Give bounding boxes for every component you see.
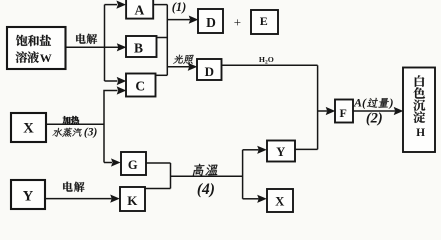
svg-text:Y: Y <box>276 145 285 159</box>
label se <box>413 87 425 98</box>
box X1 <box>11 113 46 142</box>
svg-text:C: C <box>135 78 145 93</box>
label jiare (heating) <box>63 116 79 124</box>
wire A output to right bus <box>153 4 167 6</box>
box F <box>335 100 353 123</box>
wire B output to right bus <box>157 37 168 39</box>
label chen <box>413 100 425 111</box>
box X2 <box>267 189 293 212</box>
svg-text:(2): (2) <box>366 110 383 126</box>
label dianjie (electrolysis) top <box>76 34 97 44</box>
arrowhead into A <box>116 1 126 9</box>
svg-text:X: X <box>23 120 34 136</box>
svg-text:F: F <box>340 106 347 120</box>
svg-text:E: E <box>260 14 268 28</box>
wire right tall vertical <box>317 65 319 149</box>
wire lower-left vertical X-bus <box>104 91 118 163</box>
label gaowen (high temperature) <box>192 164 219 176</box>
svg-text:X: X <box>275 194 284 208</box>
arrowhead into B <box>117 43 127 51</box>
svg-text:(4): (4) <box>197 181 215 198</box>
wire C output to right bus <box>156 74 168 76</box>
wire branch (1) to D1 <box>167 19 190 21</box>
wire bus to A <box>105 4 118 6</box>
arrowhead into D2 <box>188 63 198 71</box>
wire G output <box>146 162 171 164</box>
svg-text:K: K <box>127 193 138 208</box>
box K <box>120 187 145 211</box>
label guangzhao (light) <box>173 55 194 64</box>
wire branch into F <box>318 110 327 112</box>
wire X1 output <box>46 123 104 125</box>
box E <box>251 10 278 34</box>
svg-text:B: B <box>134 41 143 56</box>
box A <box>126 0 153 19</box>
wire split to Y2 <box>243 149 259 151</box>
svg-text:Y: Y <box>23 189 34 205</box>
label shuizhengqi (steam) <box>52 128 83 137</box>
wire D2 output H2O line <box>222 64 318 66</box>
wire split to X2 <box>243 198 259 200</box>
label dian <box>413 111 425 123</box>
svg-text:G: G <box>128 158 138 172</box>
svg-text:D: D <box>205 64 214 79</box>
wire K output <box>145 188 171 190</box>
wire bus to C upper <box>105 80 118 82</box>
box W saturated salt solution <box>7 27 66 69</box>
wire Y1 output to K <box>45 198 112 200</box>
wire W to B horizontal <box>66 46 119 48</box>
svg-text:H2O: H2O <box>259 55 274 66</box>
svg-text:A: A <box>135 3 145 18</box>
wire gaowen branch <box>171 175 243 177</box>
arrowhead into C upper <box>117 77 127 85</box>
wire F to H <box>353 110 395 112</box>
wire G-K merge vertical <box>170 163 172 189</box>
label baohe yan (saturated salt) <box>16 35 51 47</box>
label dianjie (electrolysis) bottom <box>63 182 84 192</box>
arrowhead into X2 <box>257 195 267 203</box>
box B <box>126 36 157 57</box>
svg-text:W: W <box>40 51 52 65</box>
arrowhead into F <box>326 107 336 115</box>
box Y1 <box>11 180 45 209</box>
arrowhead into H <box>394 107 404 115</box>
arrowhead into K <box>110 195 120 203</box>
box Y2 <box>267 141 295 162</box>
svg-text:): ) <box>389 96 394 110</box>
box C <box>126 74 156 97</box>
svg-text:D: D <box>206 15 216 30</box>
svg-text:(1): (1) <box>172 0 187 14</box>
wire branch guangzhao to D2 <box>167 66 189 68</box>
svg-text:A(: A( <box>353 96 367 110</box>
wire bus left vertical (electrolysis splitter) <box>104 5 106 81</box>
arrowhead into G <box>111 158 121 166</box>
box H white precipitate <box>403 68 435 153</box>
arrowhead into Y2 <box>257 146 267 154</box>
arrowhead into D1 <box>189 16 199 24</box>
label baise chendian (white precipitate) vertical <box>415 75 425 87</box>
box D1 <box>198 9 223 33</box>
arrowhead into C lower <box>117 86 127 94</box>
wire Y2-X2 split vertical <box>242 150 244 199</box>
label guoliang (excess) <box>367 98 390 108</box>
wire Y2 output to right vertical <box>295 148 318 150</box>
wire bus to G <box>104 162 112 164</box>
wire right bus vertical A-B-C <box>166 5 168 76</box>
svg-text:+: + <box>234 14 241 29</box>
svg-text:(3): (3) <box>84 127 98 139</box>
label rongye (solution) <box>16 51 39 63</box>
svg-text:H: H <box>416 127 425 139</box>
box D2 <box>197 59 222 80</box>
box G <box>121 152 146 175</box>
